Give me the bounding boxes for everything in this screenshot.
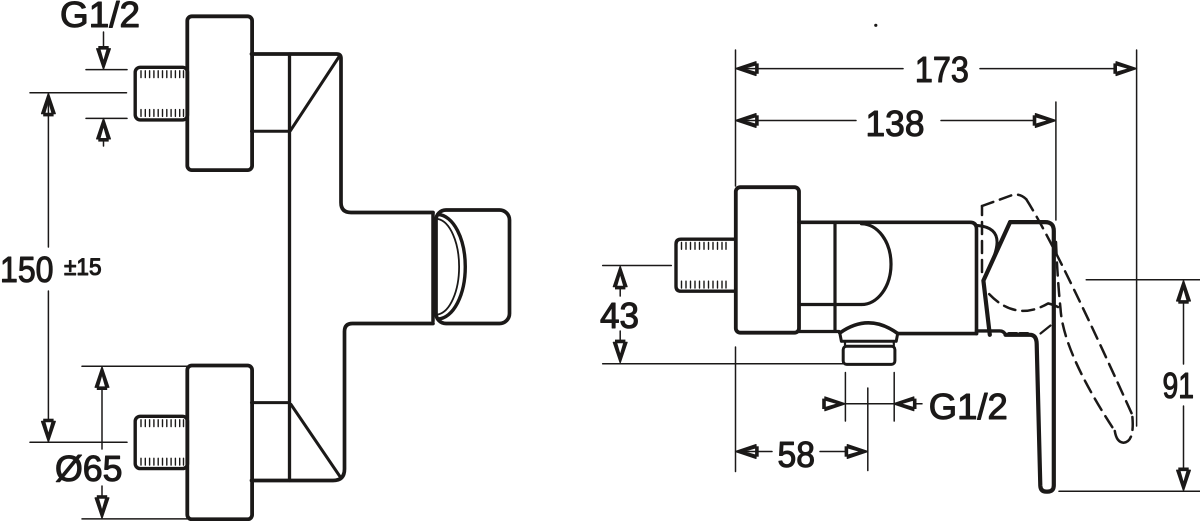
svg-text:±15: ±15: [64, 254, 102, 281]
dimension Ø65: top extension line: [82, 365, 188, 367]
dimension 173: line right segment: [980, 68, 1135, 70]
wall elbow rounded face: [862, 224, 892, 305]
dashed lever raised: lug bottom edge: [989, 294, 1048, 311]
dimension Ø65: line upper segment: [101, 388, 103, 449]
dimension G1/2 top: upper tick: [86, 69, 127, 71]
dimension 138: left arrow: [736, 114, 759, 128]
dimension 138: line left segment: [737, 120, 856, 122]
flow-control cap: [436, 210, 510, 324]
extension line handle rest position: [1055, 102, 1057, 220]
top escutcheon: [187, 16, 252, 170]
dimension 150: down arrow: [42, 419, 56, 442]
dimension G1/2 top: lower leader line: [103, 141, 105, 146]
body outline upper (front view): [252, 54, 434, 213]
dimension 91: line upper segment: [1183, 302, 1185, 364]
dimension 173: line left segment: [737, 68, 903, 70]
dimension Ø65: bottom extension line: [82, 518, 188, 520]
dimension G1/2 top: lower tick: [86, 117, 127, 119]
stray printing dot: [874, 24, 877, 27]
outlet neck step: [845, 341, 894, 346]
upper neck shoulder line: [252, 130, 290, 133]
bottom threaded nipple: [135, 416, 187, 468]
dimension G1/2 top: up arrow: [97, 118, 111, 141]
svg-text:173: 173: [915, 49, 969, 90]
flow-control joint line: [431, 213, 435, 321]
lever root accent line: [1041, 326, 1051, 334]
dimension 150: line upper segment: [47, 95, 49, 247]
dimension 91: line lower segment: [1183, 406, 1185, 468]
dimension 150: line lower segment: [47, 291, 49, 440]
svg-text:G1/2: G1/2: [929, 386, 1008, 427]
lower neck shoulder line: [252, 401, 290, 404]
outlet dome base band: [840, 333, 898, 341]
dashed lever raised: end cap: [1115, 417, 1133, 443]
side escutcheon: [736, 187, 799, 333]
dimension 58: right arrow: [845, 445, 868, 459]
dimension 43: bottom extension line: [603, 363, 843, 365]
extension line bottom nipple centre: [30, 441, 127, 443]
bottom nipple thread hatching: [141, 420, 184, 465]
side nipple thread hatching: [682, 243, 727, 289]
dimension Ø65: up arrow: [95, 367, 109, 390]
dashed lever raised: top corner: [982, 195, 1026, 206]
dimension G1/2 top: down arrow: [97, 46, 111, 69]
extension line dashed-lever extremity: [1136, 50, 1138, 426]
neck bottom line to outlet: [799, 330, 839, 333]
body outline lower (front view): [252, 324, 434, 481]
dimension 91: top extension line: [1086, 279, 1200, 281]
dimension G1/2 outlet: right arrow: [893, 397, 916, 411]
wall elbow lower line: [799, 303, 861, 306]
dashed lever raised: lower long edge: [1056, 242, 1115, 431]
dimension 173: left arrow: [736, 62, 759, 76]
svg-text:G1/2: G1/2: [60, 0, 140, 35]
dimension G1/2 outlet: left extension line: [844, 373, 846, 422]
dimension 58: line right segment: [820, 451, 866, 453]
svg-text:Ø65: Ø65: [55, 448, 123, 489]
flow-control cap curved face: [439, 215, 466, 320]
dimension Ø65: line lower segment: [101, 486, 103, 497]
dimension 91: up arrow: [1177, 281, 1191, 304]
bottom escutcheon: [187, 366, 252, 520]
top threaded nipple: [135, 67, 187, 120]
svg-text:43: 43: [600, 295, 639, 336]
dimension 43: down arrow: [613, 340, 627, 363]
lever lug left edge: [983, 222, 1010, 335]
upper chamfer diagonal: [291, 56, 340, 131]
top nipple thread hatching: [141, 71, 184, 117]
dimension 91: down arrow: [1177, 468, 1191, 491]
dash marks over body bottom line at lever root: [1009, 332, 1028, 336]
extension line wall face lower: [735, 347, 737, 472]
dashed lever raised: left edge: [981, 206, 984, 272]
dimension 58: left arrow: [736, 445, 759, 459]
dimension 43: top extension line: [603, 265, 672, 267]
dimension 150: up arrow: [42, 93, 56, 116]
aerator ring: [843, 346, 895, 364]
dimension G1/2 outlet: dim line: [845, 403, 922, 405]
dimension G1/2 top: upper leader line: [103, 32, 105, 48]
dimension 43: line upper segment: [619, 288, 621, 296]
svg-text:91: 91: [1163, 365, 1195, 406]
side nipple: [676, 239, 736, 291]
dimension 91: bottom extension line: [1059, 490, 1200, 492]
flow-control cap inner face line: [438, 219, 459, 315]
outlet centre line: [867, 388, 869, 471]
svg-text:150: 150: [0, 249, 54, 290]
dimension 58: line left segment: [737, 451, 772, 453]
body bottom edge right of outlet: [898, 332, 977, 336]
body underside step to lever: [977, 331, 1006, 335]
dimension G1/2 outlet: left arrow: [822, 397, 845, 411]
dimension 138: line right segment: [941, 120, 1055, 122]
dimension G1/2 outlet: right extension line: [893, 373, 895, 422]
svg-text:138: 138: [866, 103, 925, 144]
extension line wall face: [735, 50, 737, 186]
svg-text:58: 58: [778, 434, 816, 475]
dimension 43: line lower segment: [619, 331, 621, 340]
dimension 138: right arrow: [1033, 114, 1056, 128]
extension line top nipple centre: [30, 92, 127, 94]
dimension 43: up arrow: [613, 266, 627, 289]
lever handle body: [1006, 222, 1054, 492]
body top and right end (side view): [799, 222, 977, 333]
lower chamfer diagonal: [291, 405, 340, 478]
dashed lever raised: upper long edge: [1026, 199, 1132, 417]
body centre vertical edge: [288, 54, 291, 481]
dimension Ø65: down arrow: [95, 495, 109, 518]
wall elbow vertical edge: [833, 222, 836, 330]
cartridge dome behind lever: [978, 226, 998, 280]
dimension 173: right arrow: [1113, 62, 1136, 76]
dashed lever raised: lug corner hook: [1049, 304, 1061, 309]
outlet dome: [840, 323, 898, 334]
